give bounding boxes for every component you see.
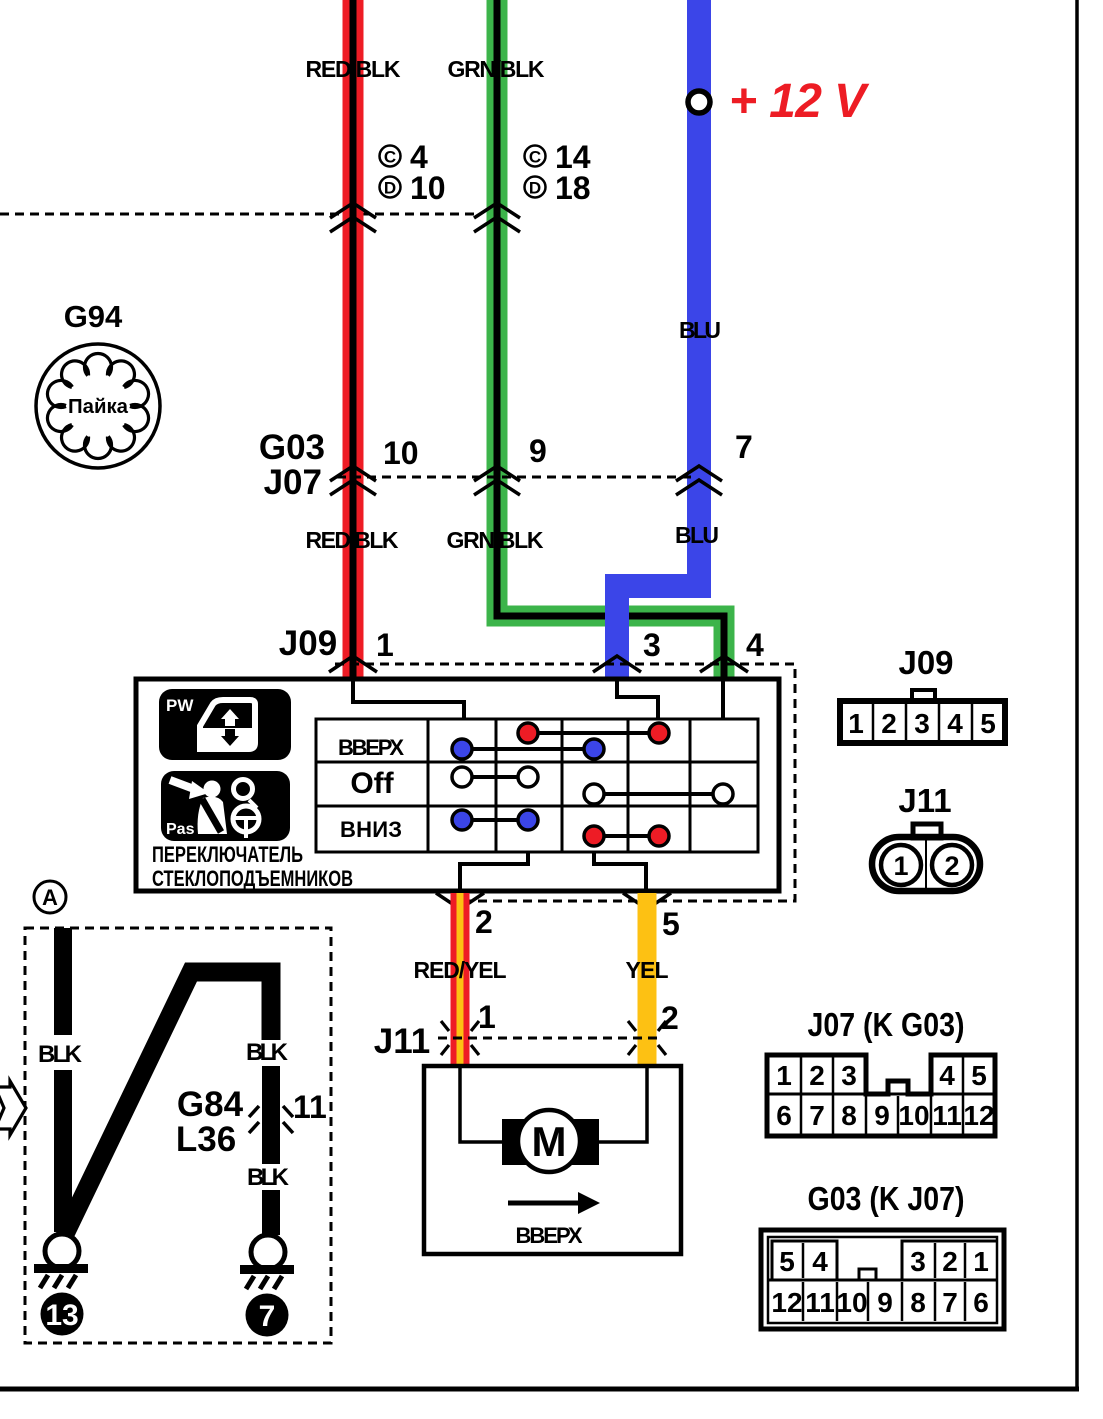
- svg-text:BLK: BLK: [38, 1041, 83, 1068]
- motor M symbol: [518, 1110, 580, 1172]
- svg-text:BLK: BLK: [246, 1039, 289, 1066]
- wire BLK left lower: [54, 1070, 72, 1232]
- svg-text:12: 12: [771, 1287, 802, 1318]
- chevrons BLU at J07 line: [676, 466, 722, 481]
- svg-text:G03: G03: [259, 428, 325, 467]
- motor wire right: [597, 1066, 647, 1142]
- svg-text:BLK: BLK: [247, 1164, 290, 1191]
- svg-text:+ 12 V: + 12 V: [729, 75, 870, 128]
- border bottom edge of page frame: [0, 1387, 1079, 1392]
- solder splice G94 outer circle: [36, 344, 160, 468]
- connector C pin 14 marker: [525, 146, 546, 167]
- dashed line G03/J07: [337, 476, 697, 479]
- svg-text:2: 2: [944, 851, 959, 881]
- motor brush right: [570, 1119, 599, 1165]
- svg-text:11: 11: [932, 1100, 962, 1131]
- svg-text:C: C: [529, 148, 541, 167]
- svg-text:4: 4: [947, 708, 963, 739]
- svg-text:3: 3: [914, 708, 930, 739]
- svg-text:J09: J09: [898, 644, 953, 681]
- svg-text:J11: J11: [898, 782, 951, 819]
- svg-text:D: D: [384, 179, 396, 198]
- switch wire contact to pin5: [594, 852, 646, 891]
- svg-text:9: 9: [529, 433, 547, 469]
- contacts DOWN row red pair: [594, 834, 659, 838]
- connector J07 face: [767, 1055, 995, 1136]
- switch wire contact to pin2: [460, 852, 528, 891]
- svg-text:ВНИЗ: ВНИЗ: [340, 817, 402, 842]
- svg-text:D: D: [529, 179, 541, 198]
- wire GRN/BLK with jog to J09 pin 4: [497, 0, 724, 681]
- arrow up direction: [508, 1201, 580, 1206]
- svg-text:J11: J11: [374, 1022, 430, 1061]
- svg-text:2: 2: [475, 904, 493, 940]
- svg-text:4: 4: [746, 627, 764, 663]
- chevrons GRN/BLK at C/D line: [474, 203, 520, 218]
- svg-text:11: 11: [805, 1287, 835, 1318]
- svg-text:5: 5: [662, 906, 680, 942]
- svg-text:G94: G94: [64, 299, 123, 334]
- svg-text:C: C: [384, 148, 396, 167]
- wire BLU with jog to J09 pin 3: [617, 0, 699, 681]
- svg-text:7: 7: [735, 429, 753, 465]
- svg-text:GRN/BLK: GRN/BLK: [448, 56, 545, 82]
- switch wire pin3 to contact: [617, 681, 658, 719]
- svg-text:A: A: [42, 885, 58, 910]
- svg-text:J09: J09: [279, 624, 337, 663]
- svg-text:5: 5: [980, 708, 996, 739]
- contacts UP row blue pair: [462, 747, 594, 751]
- svg-text:ПЕРЕКЛЮЧАТЕЛЬ: ПЕРЕКЛЮЧАТЕЛЬ: [152, 842, 303, 867]
- svg-text:9: 9: [874, 1100, 890, 1131]
- svg-text:4: 4: [812, 1246, 828, 1277]
- ground symbol right: [251, 1235, 285, 1269]
- svg-text:1: 1: [376, 627, 394, 663]
- svg-text:Пайка: Пайка: [68, 396, 129, 418]
- dashed harness box J09: [335, 664, 795, 901]
- chevrons G84 pin 11: [249, 1106, 293, 1133]
- svg-text:10: 10: [836, 1287, 867, 1318]
- svg-text:6: 6: [776, 1100, 792, 1131]
- svg-text:YEL: YEL: [626, 957, 669, 983]
- chevrons GRN/BLK at J07 line: [474, 466, 520, 481]
- svg-text:BLU: BLU: [675, 522, 719, 548]
- switch contact table: [316, 719, 758, 852]
- wire RED/YEL: [451, 893, 470, 1066]
- svg-text:ВВЕРХ: ВВЕРХ: [338, 735, 404, 760]
- svg-text:RED/BLK: RED/BLK: [306, 56, 401, 82]
- svg-text:8: 8: [910, 1287, 926, 1318]
- motor brush left: [502, 1119, 528, 1165]
- chevron J09 pin3: [593, 656, 641, 672]
- chevron J09 pin5 bottom: [623, 893, 671, 909]
- contacts DOWN row blue pair: [462, 818, 528, 822]
- svg-text:GRN/BLK: GRN/BLK: [447, 527, 544, 553]
- svg-text:11: 11: [293, 1089, 327, 1125]
- svg-text:1: 1: [973, 1246, 989, 1277]
- svg-text:ВВЕРХ: ВВЕРХ: [516, 1223, 583, 1248]
- svg-text:18: 18: [555, 170, 591, 206]
- connector J11 face: [872, 824, 980, 891]
- chevron J09 pin2 bottom: [436, 893, 484, 909]
- break marks J11 pin2: [628, 1021, 636, 1031]
- svg-text:3: 3: [910, 1246, 926, 1277]
- svg-text:PW: PW: [166, 696, 194, 715]
- svg-text:J07 (K G03): J07 (K G03): [808, 1006, 965, 1043]
- connector G03 face: [761, 1230, 1004, 1329]
- contacts Off row left pair: [462, 775, 528, 779]
- icon Pas passenger: [161, 771, 290, 841]
- svg-text:7: 7: [942, 1287, 958, 1318]
- svg-text:1: 1: [776, 1060, 792, 1091]
- contacts UP row red pair: [528, 731, 659, 735]
- svg-text:5: 5: [779, 1246, 795, 1277]
- wire BLK to right ground: [262, 1190, 280, 1235]
- svg-text:1: 1: [893, 851, 908, 881]
- svg-text:6: 6: [973, 1287, 989, 1318]
- svg-text:M: M: [532, 1118, 567, 1165]
- svg-text:5: 5: [971, 1060, 987, 1091]
- svg-text:9: 9: [877, 1287, 893, 1318]
- solder splice G94 loops: [47, 353, 148, 458]
- connector D pin 18 marker: [525, 177, 546, 198]
- icon PW power window: [159, 689, 291, 760]
- dashed box ground harness: [25, 928, 331, 1343]
- wire BLK diagonal: [64, 972, 271, 1236]
- svg-text:4: 4: [939, 1060, 955, 1091]
- terminal 7: [246, 1294, 289, 1337]
- wire BLK right middle: [262, 1066, 280, 1164]
- node A marker: [34, 881, 66, 913]
- switch wire pin1 to contact: [353, 681, 464, 719]
- wire BLK left upper: [54, 928, 72, 1035]
- terminal 13: [41, 1293, 84, 1336]
- svg-text:Pas: Pas: [166, 821, 195, 838]
- svg-text:2: 2: [661, 1000, 679, 1036]
- svg-text:13: 13: [45, 1299, 78, 1332]
- arrow indicator into harness: [0, 1081, 26, 1135]
- svg-text:СТЕКЛОПОДЪЕМНИКОВ: СТЕКЛОПОДЪЕМНИКОВ: [152, 866, 353, 891]
- border right edge of page frame: [1075, 0, 1079, 1390]
- switch wire pin4 to contact: [721, 681, 725, 719]
- svg-text:BLU: BLU: [679, 317, 721, 343]
- svg-text:7: 7: [259, 1300, 276, 1333]
- chevron J09 pin4: [700, 656, 748, 672]
- break marks J11 pin1: [441, 1021, 666, 1055]
- svg-text:12: 12: [963, 1100, 994, 1131]
- dashed line connectors C/D: [0, 213, 478, 216]
- svg-text:10: 10: [410, 170, 446, 206]
- svg-text:10: 10: [383, 435, 419, 471]
- svg-text:1: 1: [478, 999, 496, 1035]
- svg-text:G84: G84: [177, 1085, 244, 1124]
- svg-text:8: 8: [841, 1100, 857, 1131]
- svg-text:2: 2: [881, 708, 897, 739]
- wire YEL: [638, 893, 657, 1066]
- svg-text:2: 2: [942, 1246, 958, 1277]
- chevron J09 pin1: [329, 656, 377, 672]
- contacts Off row right pair: [594, 792, 723, 796]
- chevrons RED/BLK at C/D line: [330, 203, 722, 495]
- svg-text:10: 10: [898, 1100, 929, 1131]
- wire RED/BLK vertical: [343, 0, 364, 681]
- connector C pin 4 marker: [380, 146, 401, 167]
- node +12V supply: [688, 91, 710, 113]
- motor box M-window: [424, 1066, 681, 1254]
- ground symbol left: [45, 1234, 79, 1268]
- connector D pin 10 marker: [380, 177, 401, 198]
- svg-text:3: 3: [643, 627, 661, 663]
- connector J09 face: [840, 690, 1005, 743]
- motor wire left: [460, 1066, 504, 1142]
- chevrons RED/BLK at J07 line: [330, 466, 376, 481]
- svg-text:1: 1: [848, 708, 864, 739]
- svg-text:7: 7: [809, 1100, 825, 1131]
- svg-text:Off: Off: [350, 767, 394, 800]
- svg-text:G03 (K J07): G03 (K J07): [808, 1180, 965, 1217]
- svg-text:RED/BLK: RED/BLK: [306, 527, 399, 553]
- svg-text:RED/YEL: RED/YEL: [414, 957, 507, 983]
- svg-text:2: 2: [809, 1060, 825, 1091]
- window switch box U-J09: [136, 679, 779, 891]
- svg-text:3: 3: [841, 1060, 857, 1091]
- dashed line J11: [438, 1037, 658, 1040]
- svg-text:J07: J07: [264, 463, 322, 502]
- svg-text:L36: L36: [176, 1120, 236, 1159]
